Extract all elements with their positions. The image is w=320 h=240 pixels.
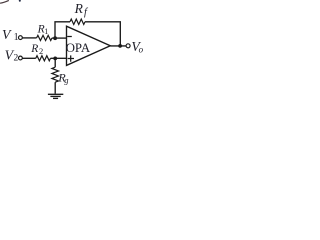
source label V2 bbox=[5, 47, 19, 63]
resistor R2 bbox=[36, 56, 51, 61]
svg-text:OPA: OPA bbox=[66, 41, 91, 55]
wire: V1 terminal to R1 bbox=[22, 37, 36, 39]
op-amp U1 (triangle) bbox=[67, 26, 111, 65]
wire: Rf to output node (feedback right vertical) bbox=[85, 22, 120, 46]
label Rf bbox=[74, 1, 89, 18]
terminal V1 (open circle) bbox=[19, 36, 23, 40]
svg-text:g: g bbox=[64, 75, 68, 85]
resistor Rg (vertical) bbox=[52, 67, 59, 82]
wire: feedback left vertical (inverting node up to Rf) bbox=[55, 22, 70, 38]
terminal V2 (open circle) bbox=[19, 56, 23, 60]
svg-text:2: 2 bbox=[39, 46, 43, 56]
svg-text:o: o bbox=[139, 45, 144, 55]
wire: Rg to ground bbox=[54, 82, 56, 94]
wire: R1 to inverting input bbox=[52, 37, 67, 39]
wire: R2 to non-inverting input bbox=[51, 57, 67, 59]
svg-text:1: 1 bbox=[14, 32, 19, 43]
wire: op-amp output to terminal bbox=[110, 45, 126, 47]
svg-text:1: 1 bbox=[44, 27, 48, 36]
source label V1 bbox=[2, 27, 19, 43]
stray dot artifact (top edge) bbox=[19, 0, 21, 2]
stray mark (cropped text artifact, top-left) bbox=[0, 0, 9, 3]
wire: non-inverting node down to Rg bbox=[54, 58, 56, 67]
resistor R1 bbox=[37, 35, 52, 40]
wire: V2 terminal to R2 bbox=[22, 57, 36, 59]
label R2 bbox=[30, 43, 43, 56]
junction: output node bbox=[118, 44, 122, 48]
op-amp non-inverting pin plus sign bbox=[68, 55, 74, 61]
label R1 bbox=[37, 23, 49, 36]
ground bbox=[48, 94, 63, 98]
label Vo bbox=[131, 39, 143, 55]
junction: non-inverting input node bbox=[53, 57, 57, 61]
terminal Vo (open circle) bbox=[126, 44, 130, 48]
svg-text:R: R bbox=[74, 1, 84, 16]
svg-text:R: R bbox=[30, 43, 38, 55]
resistor Rf bbox=[70, 19, 85, 24]
svg-text:2: 2 bbox=[14, 53, 19, 63]
label Rg bbox=[57, 70, 68, 85]
op-amp inverting pin minus sign bbox=[67, 36, 72, 38]
junction: inverting input node bbox=[53, 36, 57, 40]
